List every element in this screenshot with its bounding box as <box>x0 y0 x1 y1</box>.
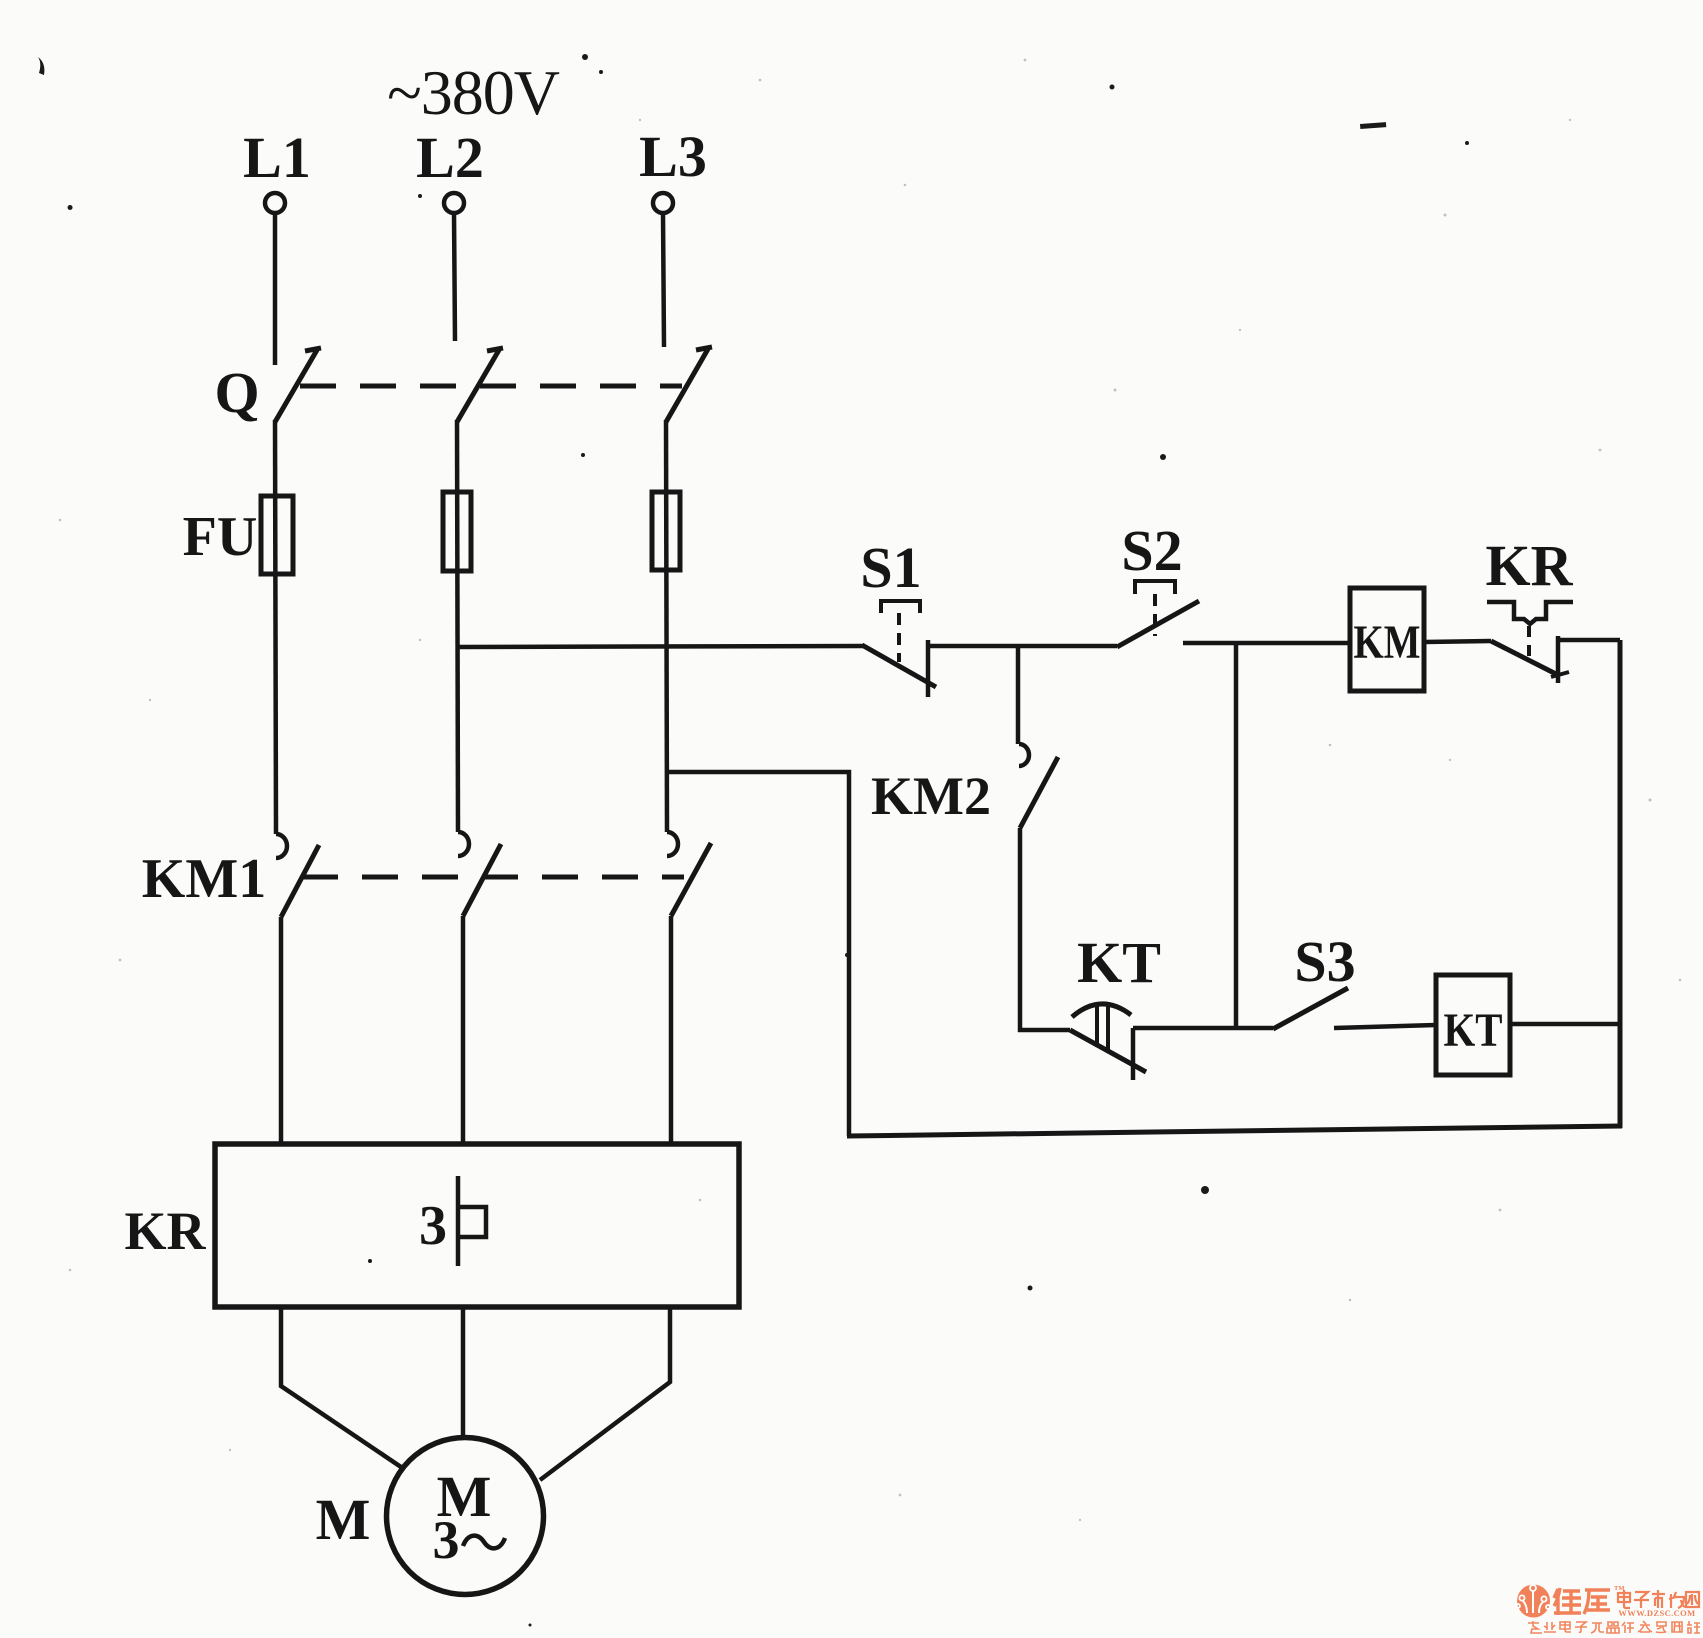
timer contact KT parallel lines <box>1097 1004 1108 1053</box>
svg-text:S3: S3 <box>1294 929 1355 994</box>
svg-text:Q: Q <box>214 360 259 425</box>
overload contact KR blade <box>1491 641 1558 675</box>
motor M circle <box>387 1438 544 1595</box>
pushbutton S1 stem <box>897 613 901 662</box>
fuse FU pole 2 <box>443 492 471 571</box>
switch Q gang dashed link <box>300 384 682 389</box>
svg-text:S1: S1 <box>860 535 921 600</box>
wire motor phase 3 <box>540 1307 670 1480</box>
wire junction to KM2 contact <box>1016 646 1021 744</box>
wire L2 mid <box>457 420 458 832</box>
switch Q pole 1 blade <box>275 348 321 422</box>
pushbutton S1 NC blade <box>862 645 936 687</box>
wire L3 lower <box>669 916 674 1146</box>
pushbutton S1 cap <box>881 601 920 613</box>
wire L3 upper <box>663 213 664 347</box>
wire S2 to KM coil <box>1183 641 1350 646</box>
wire KM2 contact down <box>1018 828 1023 1032</box>
wire control right rail <box>1618 640 1623 1128</box>
wire KT coil to right rail <box>1510 1022 1620 1027</box>
pushbutton S2 stem <box>1153 594 1157 636</box>
wire L1 lower <box>279 917 284 1146</box>
overload relay KR heater symbol <box>458 1176 486 1266</box>
terminal L3 <box>653 193 673 213</box>
timer contact KT fixed contact <box>1131 1028 1136 1080</box>
fuse FU pole 3 <box>652 492 680 570</box>
coil KM <box>1350 588 1424 691</box>
wire control tap from L3 <box>666 772 849 1136</box>
wire KM coil to KR contact <box>1424 641 1491 642</box>
coil KT <box>1436 975 1510 1075</box>
timer contact KT blade <box>1070 1030 1146 1072</box>
svg-text:KT: KT <box>1077 930 1161 995</box>
wire motor phase 2 <box>461 1307 466 1437</box>
overload relay KR heater box <box>215 1144 739 1307</box>
wire L3 mid <box>666 420 667 832</box>
terminal L1 <box>265 193 285 213</box>
contactor KM2 auxiliary contact <box>1019 744 1058 828</box>
svg-text:KR: KR <box>125 1201 207 1261</box>
svg-text:L1: L1 <box>243 125 311 190</box>
svg-text:KT: KT <box>1444 1004 1503 1057</box>
watermark site name chars <box>1618 1590 1699 1608</box>
pushbutton S1 fixed contact <box>926 640 931 697</box>
switch Q pole 2 blade <box>457 348 503 422</box>
timer contact KT arc <box>1072 1004 1131 1017</box>
watermark slogan chars <box>1528 1621 1700 1633</box>
overload contact KR symbol <box>1487 602 1573 624</box>
svg-text:~380V: ~380V <box>387 57 560 128</box>
watermark logo circle <box>1516 1585 1550 1618</box>
contactor KM1 pole 2 contact <box>458 832 501 916</box>
switch S3 blade <box>1273 988 1348 1029</box>
wire L2 lower <box>461 916 466 1146</box>
svg-text:KM: KM <box>1354 616 1421 669</box>
wire KM2 to KT contact <box>1018 1028 1070 1033</box>
wire KR contact to right rail <box>1558 638 1620 643</box>
contactor KM1 gang dashed link <box>302 875 684 880</box>
contactor KM1 pole 3 contact <box>667 832 711 916</box>
svg-text:L2: L2 <box>416 125 484 190</box>
svg-text:S2: S2 <box>1121 518 1182 583</box>
svg-text:L3: L3 <box>639 124 707 189</box>
fuse FU pole 1 <box>261 496 293 574</box>
pushbutton S2 NO blade <box>1117 601 1199 647</box>
switch Q pole 3 blade <box>666 347 712 422</box>
wire control tap from L2 <box>457 646 863 647</box>
watermark brand chars <box>1554 1588 1610 1615</box>
svg-text:M: M <box>316 1487 371 1552</box>
wire L1 upper <box>273 213 278 365</box>
pushbutton S2 cap <box>1135 581 1175 594</box>
svg-text:3: 3 <box>419 1195 447 1257</box>
svg-text:KM2: KM2 <box>871 766 991 826</box>
wire L2 upper <box>454 213 455 341</box>
terminal L2 <box>444 193 464 213</box>
overload contact KR fixed contact <box>1556 636 1561 683</box>
contactor KM1 pole 1 contact <box>276 834 319 917</box>
overload contact KR blade tip tick <box>1551 672 1569 677</box>
svg-text:KM1: KM1 <box>142 848 266 910</box>
svg-text:FU: FU <box>183 506 258 568</box>
wire L1 mid <box>275 420 276 834</box>
wire control bottom rail <box>847 1126 1622 1136</box>
wire branch junction vertical <box>1234 643 1239 1028</box>
wire S1 to S2 <box>928 644 1117 649</box>
svg-text:3: 3 <box>433 1510 460 1570</box>
svg-text:WWW.DZSC.COM: WWW.DZSC.COM <box>1618 1608 1695 1618</box>
svg-text:KR: KR <box>1486 533 1574 598</box>
overload contact KR stem <box>1527 626 1531 658</box>
wire motor phase 1 <box>281 1307 401 1467</box>
wire KT contact to S3 <box>1133 1026 1273 1031</box>
wire S3 to KT coil <box>1334 1025 1436 1028</box>
